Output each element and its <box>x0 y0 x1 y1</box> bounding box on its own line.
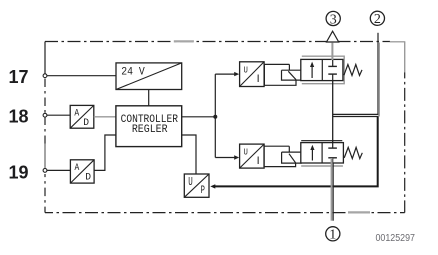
valve 2 ghost top line <box>301 140 342 142</box>
enclosure border left gray solid segment <box>44 144 46 171</box>
port 2 gray parallel wire <box>378 43 380 117</box>
enclosure border bottom <box>45 212 405 214</box>
svg-text:19: 19 <box>8 163 28 183</box>
valve 1 spring <box>344 65 362 76</box>
valve 1 blocked port T top <box>332 59 334 66</box>
A/D converter 2 <box>70 160 94 184</box>
interconnect double line lower <box>333 116 379 118</box>
power box 24V <box>116 63 182 90</box>
wire controller to U/P <box>182 135 196 174</box>
interconnect double line upper <box>333 113 379 115</box>
svg-text:D: D <box>83 117 89 129</box>
svg-text:17: 17 <box>8 67 28 87</box>
svg-text:P: P <box>201 185 206 197</box>
node 17 terminal circle <box>43 74 47 78</box>
enclosure border top gray thick dash <box>174 40 194 42</box>
valve 1 flow arrow <box>311 64 313 79</box>
valve 2 body <box>301 143 344 163</box>
enclosure border bottom gray thick dash <box>348 211 370 213</box>
U/P converter <box>184 174 209 197</box>
enclosure border left dash segment 2 <box>44 174 46 213</box>
valve 2 spring <box>344 147 362 158</box>
valve 1 blocked port T bottom <box>332 74 334 81</box>
svg-text:REGLER: REGLER <box>132 124 168 136</box>
black wire valve2 bottom to port 1 <box>332 164 334 221</box>
port 2 wire down <box>377 33 379 115</box>
svg-text:I: I <box>257 155 260 167</box>
proportional solenoid 1 <box>264 64 302 85</box>
junction dot <box>213 115 217 119</box>
svg-text:24 V: 24 V <box>121 67 145 79</box>
enclosure border right gray segment <box>404 42 406 73</box>
valve 2 blocked port T bottom <box>332 158 334 163</box>
enclosure border top-right gray segment <box>390 41 406 43</box>
valve 2 blocked port T top <box>332 143 334 149</box>
node 19 terminal circle <box>43 169 47 173</box>
svg-text:2: 2 <box>374 12 381 27</box>
wire valve1 bottom to valve2 top <box>332 81 334 143</box>
port 1 circle <box>326 227 340 241</box>
enclosure border left dash segment 1 <box>44 79 46 144</box>
svg-text:U: U <box>244 147 248 158</box>
controller box <box>116 106 182 147</box>
valve 1 body <box>301 59 343 80</box>
proportional solenoid 2 <box>264 146 301 166</box>
wire node17 to 24V box <box>47 75 116 77</box>
svg-text:18: 18 <box>8 107 28 127</box>
wire node18 to A/D1 <box>47 114 70 116</box>
wire 24V to controller <box>148 90 150 106</box>
vertical distribution wire <box>214 74 216 157</box>
enclosure border top <box>45 41 390 43</box>
port 3 circle <box>326 11 340 25</box>
enclosure border left solid top segment <box>44 42 46 76</box>
node 18 terminal circle <box>43 113 47 117</box>
svg-text:D: D <box>85 172 91 184</box>
wire node19 to A/D2 <box>47 169 70 171</box>
thick feedback wire to U/P <box>214 117 378 187</box>
port 2 circle <box>370 11 384 25</box>
wire to U/I 1 with arrow <box>215 73 235 75</box>
enclosure border right <box>404 72 406 212</box>
wire controller right to junction <box>182 116 216 118</box>
U/I converter 2 <box>240 144 265 168</box>
gray wire A/D1 to controller <box>94 116 116 118</box>
svg-text:1: 1 <box>329 228 336 243</box>
port 3 gray line to valve 1 <box>331 43 333 60</box>
wire to U/I 2 with arrow <box>215 157 235 159</box>
svg-text:A: A <box>75 163 80 174</box>
svg-text:3: 3 <box>330 12 337 27</box>
port 3 vent triangle <box>327 31 339 42</box>
svg-text:00125297: 00125297 <box>376 233 416 244</box>
wire A/D2 to controller <box>94 135 116 170</box>
svg-text:U: U <box>188 176 193 189</box>
valve 2 ghost bottom line <box>301 165 343 167</box>
valve 2 flow arrow <box>311 147 313 161</box>
svg-text:I: I <box>257 73 260 85</box>
U/I converter 1 <box>240 62 265 87</box>
A/D converter 1 <box>70 105 94 128</box>
svg-text:A: A <box>74 109 79 120</box>
svg-text:U: U <box>244 64 248 75</box>
gray wire valve2 bottom to port 1 <box>331 158 333 221</box>
valve 1 gray ghost <box>302 56 344 83</box>
